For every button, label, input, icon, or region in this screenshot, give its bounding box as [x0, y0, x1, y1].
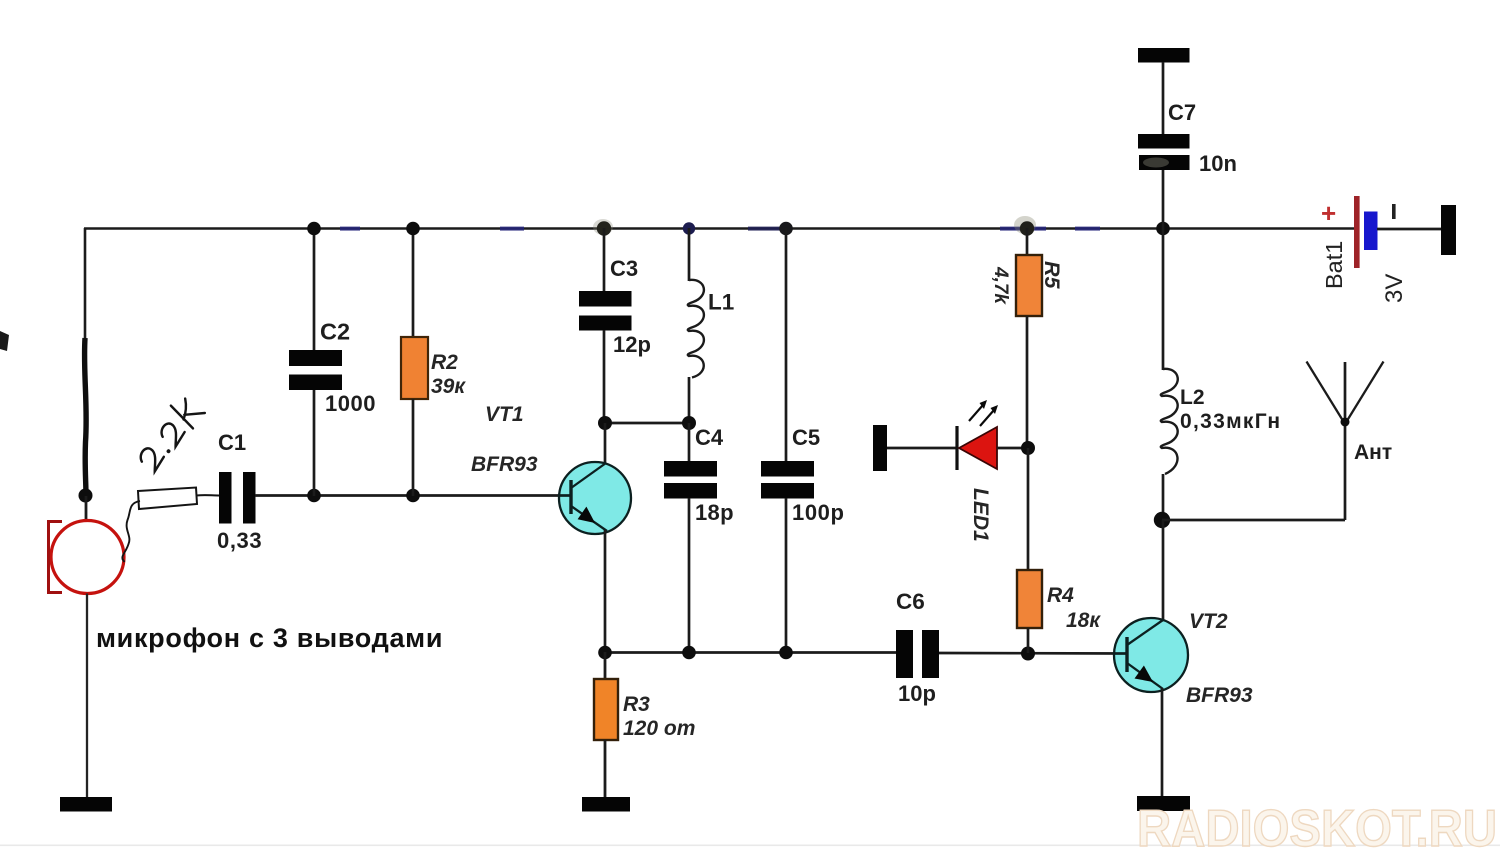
svg-text:12p: 12p	[613, 332, 651, 357]
microphone M1 body	[51, 521, 124, 594]
wire R4 upper	[1027, 448, 1030, 571]
wire LED anode	[887, 447, 957, 450]
node rail C5	[779, 646, 793, 660]
capacitor C7 plates	[1138, 134, 1190, 149]
resistor hand-drawn 2.2k body	[138, 488, 197, 510]
capacitor C1 plates	[219, 472, 232, 524]
svg-text:100p: 100p	[792, 500, 845, 525]
svg-text:3V: 3V	[1381, 274, 1408, 303]
ground mic	[60, 797, 112, 812]
left edge artifact	[0, 331, 9, 351]
wire C7 stub	[1162, 62, 1165, 135]
wire C6 to VT2 base	[939, 652, 1128, 655]
node antenna feed	[1341, 418, 1350, 427]
svg-text:R5: R5	[1040, 261, 1064, 290]
capacitor C4 plates	[664, 461, 717, 477]
antenna right branch	[1345, 362, 1384, 425]
svg-text:C7: C7	[1168, 100, 1196, 125]
wire L2 lower	[1162, 474, 1165, 521]
svg-text:18к: 18к	[1066, 609, 1101, 632]
capacitor C3 plates	[579, 291, 632, 307]
transistor VT1 body	[559, 462, 631, 534]
wire R5 upper	[1026, 228, 1029, 256]
wire bus blue smudge 1	[340, 227, 360, 231]
wire VT2 emitter drop	[1161, 688, 1164, 797]
node bus C7L2	[1156, 222, 1170, 236]
inductor L2 coil	[1161, 369, 1178, 474]
wire left drop thick sketch	[85, 338, 87, 496]
wire R5 lower to LED node	[1026, 316, 1029, 448]
label battery minus	[1392, 204, 1396, 219]
inductor L1 coil	[688, 280, 704, 378]
svg-text:Ант: Ант	[1354, 441, 1392, 464]
wire VT1 emitter drop	[604, 530, 607, 653]
svg-text:120 om: 120 om	[623, 717, 695, 740]
wire bus blue smudge 2	[500, 227, 524, 231]
node bus C5	[779, 222, 793, 236]
wire VT1 base inside	[558, 494, 572, 497]
svg-text:LED1: LED1	[969, 488, 992, 542]
node bus R5 smudged	[1014, 216, 1036, 234]
capacitor C6 plates	[896, 630, 913, 678]
svg-text:RADIOSKOT.RU: RADIOSKOT.RU	[1137, 800, 1497, 858]
node C6 R4	[1021, 647, 1035, 661]
antenna left branch	[1307, 362, 1346, 425]
resistor R2 body	[401, 337, 428, 399]
wire C2 upper	[313, 228, 316, 351]
capacitor C7 plate smudge	[1143, 158, 1169, 168]
wire hand resistor to C1	[196, 494, 220, 496]
wire bus blue smudge 5	[1075, 227, 1100, 231]
wire antenna horizontal	[1162, 519, 1345, 522]
wire C5 lower	[785, 498, 788, 653]
wire R2 upper	[412, 228, 415, 338]
node rail C4	[682, 646, 696, 660]
svg-text:C1: C1	[218, 430, 246, 455]
label 2.2k handwritten	[131, 393, 205, 473]
transistor VT2 collector stroke	[1127, 620, 1163, 645]
svg-text:+: +	[1321, 198, 1336, 228]
wire hand squiggle to mic	[122, 501, 140, 562]
svg-text:R2: R2	[431, 351, 458, 374]
wire bus blue smudge 3	[748, 227, 790, 231]
battery Bat1 negative plate	[1364, 212, 1378, 251]
resistor R4 body	[1017, 570, 1042, 628]
svg-text:18p: 18p	[695, 500, 734, 525]
node bus C2	[307, 222, 321, 236]
capacitor C5 plates	[761, 461, 814, 477]
LED1 terminal bar	[873, 425, 887, 471]
wire C7 lower	[1162, 170, 1165, 229]
wire R3 upper	[604, 652, 607, 680]
wire mic bottom	[86, 594, 88, 799]
node rail VT1	[598, 646, 612, 660]
svg-text:Bat1: Bat1	[1321, 241, 1347, 289]
ground VT2	[1137, 796, 1190, 811]
svg-text:C6: C6	[896, 589, 925, 614]
wire L1 upper	[688, 228, 691, 281]
wire mic top lead	[85, 496, 88, 521]
transistor VT1 collector stroke	[571, 463, 606, 488]
svg-text:R4: R4	[1047, 584, 1074, 607]
wire C3 upper	[603, 228, 606, 292]
svg-text:VT1: VT1	[485, 403, 524, 426]
transistor VT1 emitter stroke	[571, 506, 607, 531]
transistor VT2 body	[1114, 618, 1188, 692]
node bus L1 navy	[683, 222, 695, 234]
svg-text:10p: 10p	[898, 681, 936, 706]
LED1 emission arrow 1	[969, 405, 983, 421]
svg-text:микрофон с 3 выводами: микрофон с 3 выводами	[96, 623, 443, 653]
wire C5 upper	[785, 228, 788, 462]
wire top bus	[84, 227, 1355, 230]
wire C3 lower	[603, 330, 606, 424]
wire C1 to VT1 base row	[255, 494, 572, 497]
capacitor C2 plates	[289, 350, 342, 366]
transistor VT2 emitter stroke	[1127, 663, 1163, 689]
wire R4 lower	[1027, 628, 1030, 653]
wire battery to ground	[1377, 228, 1442, 231]
wire R3 lower	[604, 740, 607, 798]
svg-text:39к: 39к	[431, 375, 466, 398]
svg-text:L1: L1	[708, 290, 734, 315]
svg-text:0,33мкГн: 0,33мкГн	[1180, 410, 1281, 433]
diode LED1 cathode bar	[955, 426, 958, 470]
svg-text:C3: C3	[610, 256, 638, 281]
wire VT2 collector	[1162, 520, 1165, 620]
transistor VT2 emitter arrow	[1135, 666, 1154, 683]
transistor VT1 base bar	[569, 480, 572, 514]
diode LED1 triangle	[959, 427, 997, 469]
wire mid link C3-L1	[604, 422, 689, 425]
node row495 b	[406, 489, 420, 503]
node bus C3 smudged	[593, 219, 613, 235]
svg-text:10n: 10n	[1199, 151, 1237, 176]
wire LED to node	[997, 447, 1028, 450]
svg-text:C4: C4	[695, 425, 724, 450]
battery Bat1 positive plate	[1354, 196, 1360, 268]
antenna mast	[1344, 362, 1347, 424]
node row495 a	[307, 489, 321, 503]
node mic top	[79, 489, 93, 503]
resistor R3 body	[594, 679, 618, 740]
wire antenna vertical	[1344, 422, 1347, 520]
svg-text:C5: C5	[792, 425, 820, 450]
wire L1 lower	[688, 377, 691, 424]
svg-text:L2: L2	[1180, 386, 1205, 409]
svg-text:1000: 1000	[325, 391, 376, 416]
svg-text:C2: C2	[320, 319, 350, 345]
LED1 emission arrow 2	[980, 410, 994, 426]
capacitor C7 terminal bar	[1138, 48, 1190, 63]
microphone bracket	[49, 522, 63, 593]
node LED R5	[1021, 441, 1035, 455]
svg-text:VT2: VT2	[1189, 610, 1228, 633]
svg-text:BFR93: BFR93	[471, 453, 538, 476]
node L2 antenna	[1154, 512, 1170, 528]
faint bottom artifact line	[0, 845, 1500, 847]
node bus R2	[406, 222, 420, 236]
ground R3	[582, 797, 630, 812]
wire left drop thin	[84, 228, 87, 340]
svg-text:0,33: 0,33	[217, 528, 262, 553]
wire R2 lower	[412, 399, 415, 496]
ground battery	[1441, 205, 1456, 255]
resistor R5 body	[1016, 255, 1042, 316]
node mid C3	[598, 416, 612, 430]
transistor VT2 base bar	[1125, 637, 1128, 672]
svg-text:R3: R3	[623, 693, 650, 716]
wire bus blue smudge 4	[1000, 227, 1046, 231]
transistor VT1 emitter arrow	[578, 507, 595, 523]
wire C4 upper	[688, 423, 691, 462]
wire VT2 base inside	[1113, 652, 1128, 655]
wire bottom rail left	[605, 651, 896, 654]
wire C4 lower	[688, 498, 691, 653]
node mid L1	[682, 416, 696, 430]
wire VT1 collector	[604, 423, 607, 464]
wire L2 upper	[1162, 228, 1165, 370]
svg-text:BFR93: BFR93	[1186, 684, 1253, 707]
wire C2 lower	[313, 390, 316, 496]
svg-text:4,7k: 4,7k	[990, 266, 1011, 305]
